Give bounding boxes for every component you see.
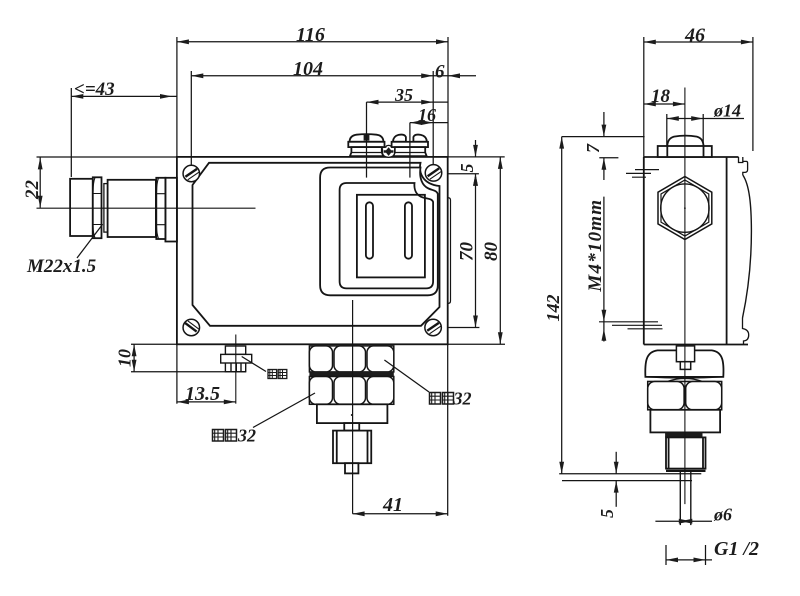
- dimension 104: [191, 71, 433, 166]
- dimension 70: [448, 174, 480, 328]
- svg-text:16: 16: [418, 105, 436, 125]
- right side thin tab: [448, 198, 451, 304]
- inner cover plate with chamfered corners: [193, 163, 440, 326]
- terminal cap 2 flange: [392, 142, 428, 147]
- lower break marks: [599, 322, 663, 329]
- corner screw top-right: [425, 165, 442, 182]
- dimension 16: [410, 120, 448, 177]
- side top-right latch: [739, 157, 748, 175]
- svg-text:<=43: <=43: [74, 79, 115, 100]
- corner screw bottom-right: [425, 319, 442, 336]
- svg-text:7: 7: [583, 143, 603, 153]
- terminal cap 2 skirt: [393, 147, 426, 156]
- left connector thread ring C: [104, 184, 108, 233]
- fitting neck: [344, 423, 359, 431]
- CJK label duidi32 left: [213, 426, 257, 446]
- side cap flange: [658, 146, 712, 157]
- svg-text:116: 116: [296, 24, 325, 46]
- side cap dome: [667, 136, 703, 146]
- dimension 46: [644, 37, 753, 157]
- terminal cap 1 dome: [350, 134, 384, 142]
- dimension 41: [353, 344, 448, 516]
- svg-text:5: 5: [457, 164, 477, 173]
- CJK label duidi32 right: [430, 389, 472, 409]
- leader M22x1.5: [77, 224, 103, 258]
- body outline: [177, 157, 448, 344]
- dimension 5 (side): [562, 452, 692, 507]
- svg-text:G1 /2: G1 /2: [714, 538, 759, 560]
- side centerline: [684, 88, 686, 505]
- leader ground tab: [242, 357, 266, 372]
- side washer band: [647, 379, 722, 382]
- bottom hex nut upper: [309, 346, 393, 372]
- window slot left: [366, 202, 373, 258]
- dimension 142: [559, 137, 701, 474]
- switch window outer outline: [320, 168, 438, 296]
- fitting lower block: [333, 431, 371, 464]
- left connector main cylinder D: [108, 180, 156, 237]
- side body outline: [644, 157, 752, 328]
- svg-text:70: 70: [457, 242, 478, 262]
- svg-text:ø6: ø6: [713, 505, 732, 525]
- upper break marks: [626, 170, 659, 178]
- side bell: [645, 350, 723, 377]
- svg-text:80: 80: [481, 242, 502, 262]
- dimension <=43: [71, 88, 177, 177]
- switch window inner rim: [340, 183, 434, 288]
- terminal cap 1 flange: [348, 142, 384, 147]
- terminal cap 1 slot: [364, 134, 370, 140]
- M4 leader line: [602, 197, 607, 342]
- dimension 22: [37, 157, 177, 208]
- dimension diameter 6: [655, 519, 712, 524]
- side thread groove (dark): [665, 432, 702, 437]
- terminal cap 1 skirt: [350, 147, 383, 156]
- dimension 80: [448, 157, 505, 344]
- side hex 2: [648, 382, 722, 410]
- side spindle: [676, 346, 694, 362]
- left connector collar E: [156, 178, 165, 239]
- svg-text:5: 5: [597, 509, 617, 518]
- dimension 35: [367, 100, 448, 178]
- terminal cap 2 dome left hump: [393, 135, 406, 142]
- dimension 13.5: [177, 344, 236, 404]
- dimension G1/2: [666, 545, 712, 565]
- side probe: [680, 471, 691, 525]
- corner screw top-left: [183, 165, 200, 182]
- side right curved profile: [743, 175, 752, 318]
- left connector cylinder A: [70, 179, 93, 236]
- svg-text:10: 10: [115, 349, 135, 367]
- corner screw bottom-left: [183, 319, 200, 336]
- dimension 10: [131, 344, 246, 371]
- mounting bracket below body: [225, 346, 245, 354]
- svg-text:46: 46: [684, 25, 705, 47]
- svg-text:ø14: ø14: [713, 101, 741, 121]
- side bottom-right hook: [743, 318, 749, 345]
- fitting nub: [345, 463, 358, 473]
- left connector collar B: [93, 177, 102, 238]
- dimension diameter 14: [667, 114, 744, 146]
- side threaded stem: [666, 437, 706, 471]
- seal ornament between caps: [383, 145, 395, 157]
- svg-text:35: 35: [394, 85, 413, 105]
- svg-text:142: 142: [543, 295, 563, 322]
- svg-text:32: 32: [237, 426, 256, 446]
- connector centerline: [37, 207, 256, 209]
- CJK label ground: [268, 370, 287, 379]
- dimension 5 (front): [448, 140, 479, 186]
- svg-text:22: 22: [22, 180, 43, 201]
- dimension 18: [644, 102, 685, 107]
- dimension 116: [177, 37, 448, 157]
- side hex nut: [658, 177, 712, 240]
- svg-text:M22x1.5: M22x1.5: [26, 256, 97, 277]
- terminal cap 2 dome right hump: [413, 135, 427, 142]
- hex assembly centerline: [352, 300, 354, 514]
- fitting block: [317, 404, 388, 423]
- left connector end flange F: [165, 178, 177, 242]
- bottom hex nut lower: [309, 377, 393, 405]
- hex joint dark band: [309, 372, 393, 377]
- bracket axis line: [235, 335, 237, 404]
- svg-text:104: 104: [293, 58, 323, 80]
- svg-text:6: 6: [435, 62, 445, 83]
- switch window plate: [357, 195, 425, 278]
- leader duidi32 right: [384, 360, 429, 392]
- svg-text:M4*10mm: M4*10mm: [585, 199, 606, 293]
- window slot right: [405, 202, 412, 258]
- svg-text:32: 32: [453, 389, 472, 409]
- leader duidi32 left: [253, 393, 315, 428]
- svg-text:13.5: 13.5: [185, 383, 220, 405]
- dimension 7: [562, 112, 645, 180]
- svg-text:41: 41: [382, 494, 403, 516]
- dimension 6: [433, 73, 476, 78]
- svg-text:18: 18: [651, 86, 671, 107]
- side cylinder: [650, 410, 720, 433]
